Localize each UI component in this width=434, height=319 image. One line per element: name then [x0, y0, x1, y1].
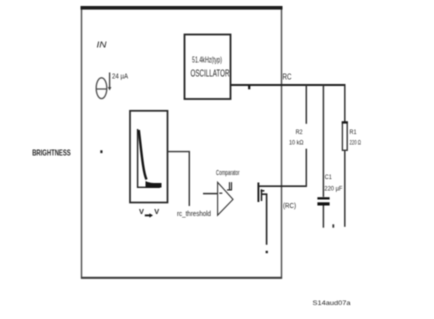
svg-text:51.4kHz(typ): 51.4kHz(typ)	[192, 55, 222, 64]
svg-text:10 kΩ: 10 kΩ	[289, 140, 304, 147]
svg-text:BRIGHTNESS: BRIGHTNESS	[32, 147, 71, 157]
svg-text:24 µA: 24 µA	[112, 74, 128, 81]
wire source to ground	[262, 194, 267, 245]
oscillator block OSC	[185, 35, 231, 100]
resistor R2 leads	[305, 85, 307, 187]
current source I1	[96, 78, 107, 99]
comparator U2	[218, 182, 233, 215]
svg-text:R2: R2	[296, 129, 303, 136]
svg-text:OSCILLATOR: OSCILLATOR	[191, 68, 230, 79]
svg-text:rc_threshold: rc_threshold	[177, 211, 211, 218]
junction tick on RC wire	[248, 86, 250, 90]
node junction dot	[100, 150, 102, 153]
svg-text:V: V	[154, 207, 159, 216]
label V to V	[139, 207, 159, 218]
svg-text:220 µF: 220 µF	[324, 185, 342, 192]
svg-text:V: V	[139, 207, 144, 216]
wire drain to R2	[258, 185, 307, 187]
svg-text:R1: R1	[350, 129, 357, 136]
current arrow	[108, 73, 112, 91]
wire comparator input	[203, 193, 218, 195]
IC outline box U1	[81, 6, 283, 279]
wire V-I output to threshold node	[168, 152, 190, 206]
capacitor C1	[317, 85, 329, 228]
svg-text:IN: IN	[97, 40, 108, 50]
svg-text:RC: RC	[283, 72, 292, 81]
ground dot at source	[266, 251, 268, 253]
svg-text:Comparator: Comparator	[216, 168, 240, 177]
V to I converter block	[130, 111, 168, 203]
resistor R1	[342, 85, 348, 227]
label R1 220 Ohm	[350, 129, 362, 147]
svg-text:S14aud07a: S14aud07a	[313, 300, 351, 307]
svg-text:(RC): (RC)	[283, 201, 296, 210]
svg-text:220 Ω: 220 Ω	[350, 140, 362, 147]
ground mark at C1	[332, 224, 334, 227]
svg-text:C1: C1	[325, 174, 332, 181]
transistor Q1	[258, 183, 264, 203]
wire RC net	[231, 84, 346, 86]
label C1 220 µF	[324, 174, 342, 192]
label R2 10 kOhm	[289, 129, 304, 147]
